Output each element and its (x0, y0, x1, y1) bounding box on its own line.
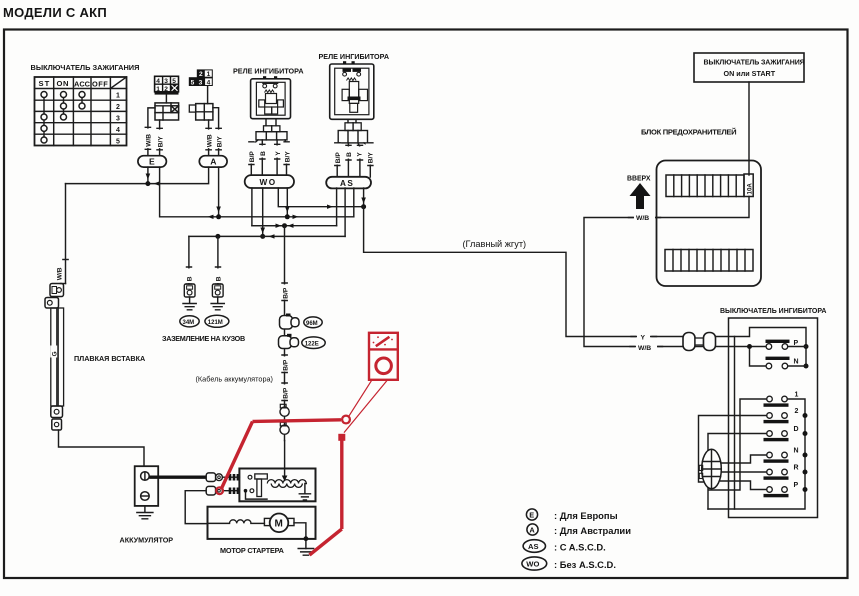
svg-text:B/Y: B/Y (368, 152, 375, 164)
starter motor box (208, 507, 316, 539)
ignition connector A (189, 104, 213, 120)
inline connector circle 1 on B/P (280, 404, 289, 416)
solenoid pull-in coil (267, 480, 306, 484)
red highlight vertical (340, 441, 343, 530)
contact row R (764, 465, 799, 480)
wire WO pin B (262, 188, 264, 236)
svg-text:P: P (794, 482, 799, 489)
wire B/P relay2 to AS (337, 143, 340, 177)
connector fusible link bottom b (52, 419, 62, 430)
red pointer line A (349, 380, 372, 417)
arrow right on Y link (327, 205, 333, 209)
connector ground 1 (184, 284, 195, 297)
connector oval E (Europe) (138, 156, 167, 167)
connector battery cable 2 (206, 486, 222, 495)
wire row2 to connector (699, 416, 767, 483)
wire ignition to 10A fuse (748, 82, 750, 175)
solenoid plunger (255, 474, 267, 497)
svg-text:БЛОК ПРЕДОХРАНИТЕЛЕЙ: БЛОК ПРЕДОХРАНИТЕЛЕЙ (641, 128, 736, 137)
arrow right on B/Y bus (293, 215, 299, 219)
svg-text:4: 4 (116, 127, 120, 134)
svg-text:РЕЛЕ ИНГИБИТОРА: РЕЛЕ ИНГИБИТОРА (319, 52, 390, 61)
wire Y relay1 to WO (276, 140, 278, 176)
connector fusible link top a (50, 284, 66, 297)
red highlight battery cable diagonal (221, 422, 253, 490)
connector fusible link bottom a (51, 406, 63, 418)
solenoid contact 2 (250, 489, 254, 493)
wire AS pin B/Y joins bus (353, 188, 355, 217)
wire B/Y relay2 to AS (364, 143, 370, 177)
connector pair 96M (280, 314, 300, 330)
svg-text:B/P: B/P (283, 287, 290, 299)
svg-text:P: P (794, 340, 799, 347)
arrow left on W/B bus (154, 181, 160, 185)
svg-text:E: E (529, 511, 534, 520)
svg-text:N: N (794, 448, 799, 455)
contact N (766, 357, 807, 369)
wire W/B from connector A to oval A (208, 120, 210, 156)
svg-text:WO: WO (526, 560, 539, 569)
connector oval AS (with ASCD) (326, 177, 371, 189)
wire ticks relay1 labels (249, 142, 289, 165)
arrow down WO pin B (260, 228, 265, 234)
red highlight diagonal to ground (310, 529, 342, 555)
battery (135, 466, 159, 506)
svg-text:2: 2 (164, 86, 168, 93)
arrow left ground bus (269, 234, 275, 238)
svg-text:B/P: B/P (249, 151, 256, 163)
ground symbol 1 (183, 297, 196, 310)
wire thick battery positive to starter (149, 476, 206, 479)
junction dot P right (804, 344, 809, 349)
red highlight horizontal (253, 420, 342, 422)
fuse block (657, 161, 762, 287)
svg-text:W/B: W/B (636, 215, 649, 222)
svg-text:W/B: W/B (206, 134, 213, 147)
svg-text:ВЫКЛЮЧАТЕЛЬ ИНГИБИТОРА: ВЫКЛЮЧАТЕЛЬ ИНГИБИТОРА (720, 308, 826, 315)
svg-text:3: 3 (116, 116, 120, 123)
svg-text:(Главный жгут): (Главный жгут) (463, 239, 527, 249)
inline connector circle 2 on B/P (280, 422, 289, 434)
red open circle marker (342, 416, 350, 424)
connector number oval 96M (304, 317, 322, 328)
fusible link G (50, 308, 63, 406)
svg-text:ЗАЗЕМЛЕНИЕ НА КУЗОВ: ЗАЗЕМЛЕНИЕ НА КУЗОВ (162, 334, 245, 343)
wire B relay1 to WO (261, 140, 263, 176)
inline connector capsule pair (683, 333, 716, 351)
motor field coil (208, 520, 265, 524)
wire bus W/B (ignition feed) (66, 167, 209, 184)
svg-text:B: B (346, 152, 353, 157)
legend symbol AS (523, 540, 545, 553)
connector oval A (Australia) (199, 156, 227, 167)
red callout box (369, 333, 398, 380)
wire WO pin B/P (252, 188, 285, 226)
legend symbol E (526, 509, 537, 520)
svg-text:AS: AS (340, 179, 354, 188)
wire B/Y from oval E down to B/Y bus (160, 167, 354, 217)
wire B/P link bus (252, 225, 337, 227)
legend symbol WO (522, 557, 547, 570)
svg-text:: Для Австралии: : Для Австралии (554, 525, 631, 536)
svg-text:D: D (794, 426, 799, 433)
wire ground bus B (189, 235, 345, 237)
arrow left B/P link (288, 224, 294, 228)
contact row P2 (764, 482, 799, 497)
svg-text:96M: 96M (306, 321, 318, 327)
svg-text:W/B: W/B (145, 134, 152, 147)
ground symbol starter (298, 549, 313, 556)
svg-text:B/P: B/P (283, 387, 290, 399)
svg-text:АККУМУЛЯТОР: АККУМУЛЯТОР (120, 536, 174, 545)
inhibitor switch box (729, 318, 818, 518)
svg-text:5: 5 (172, 78, 176, 85)
starter motor M (264, 514, 294, 533)
contact row N2 (764, 448, 799, 463)
wire solenoid S terminal (185, 491, 207, 524)
wire W/B branch to P and N (750, 347, 767, 367)
svg-text:M: M (275, 519, 283, 530)
svg-text:1: 1 (795, 392, 799, 399)
wire AS pin B/P (336, 188, 338, 226)
connector pair 122E (279, 334, 299, 349)
svg-text:1: 1 (156, 86, 160, 93)
wire B/Y from connector E to oval E (159, 120, 161, 156)
wire ticks relay2 labels (335, 143, 373, 166)
svg-text:РЕЛЕ ИНГИБИТОРА: РЕЛЕ ИНГИБИТОРА (233, 67, 304, 76)
svg-text:A: A (210, 157, 216, 167)
wire right bus of switch (708, 399, 805, 509)
contact row D (764, 426, 799, 441)
connector number oval 122E (302, 337, 325, 349)
svg-text:AS: AS (528, 542, 539, 551)
svg-text:(Кабель аккумулятора): (Кабель аккумулятора) (196, 375, 274, 384)
svg-text:Y: Y (641, 335, 646, 342)
svg-text:R: R (794, 465, 799, 472)
ground symbol 2 (211, 297, 224, 310)
svg-text:ВВЕРХ: ВВЕРХ (627, 176, 651, 183)
svg-text:B/Y: B/Y (284, 151, 291, 163)
svg-text:ST: ST (39, 79, 51, 88)
red pointer line B (344, 380, 388, 433)
arrow left on B/Y bus (208, 215, 214, 219)
ignition connector E (with X cell) (155, 103, 179, 120)
svg-text:B/Y: B/Y (158, 136, 165, 148)
wire link to battery (59, 430, 145, 466)
wire grid1 to connector E (165, 95, 167, 103)
svg-text:122E: 122E (305, 341, 319, 347)
svg-text:Y: Y (275, 151, 282, 156)
wire W/B from fuse block (584, 197, 766, 347)
connector fusible link top b (45, 298, 59, 309)
svg-text:2: 2 (116, 104, 120, 111)
svg-text:МОТОР СТАРТЕРА: МОТОР СТАРТЕРА (220, 546, 285, 555)
wire and teeth into solenoid 2 (222, 488, 239, 495)
wire rowP to connector (721, 481, 767, 490)
arrow right B/P link (276, 224, 282, 228)
wire W/B from connector E to oval E (148, 108, 155, 156)
svg-text:B/P: B/P (283, 359, 290, 371)
wire WO pin B/Y (286, 188, 288, 217)
wire W/B left column from bus (65, 184, 67, 284)
wire Y inside switch (716, 328, 806, 367)
svg-text:1: 1 (207, 71, 211, 78)
junction dot ground2 (215, 234, 220, 239)
svg-text:10A: 10A (746, 183, 753, 195)
wire B/P column (284, 226, 286, 441)
label Y harness wire (637, 332, 650, 341)
arrow down on E stem (146, 174, 151, 180)
svg-text:B/P: B/P (335, 152, 342, 164)
svg-text:W/B: W/B (638, 345, 651, 352)
wire body-ground 1 drop (188, 236, 190, 284)
svg-text:: C A.S.C.D.: : C A.S.C.D. (554, 542, 606, 553)
contact P (766, 340, 807, 350)
wire B relay2 to AS (347, 143, 349, 177)
junction dot WO B/Y (285, 214, 290, 219)
wire B/Y from connector A to oval A (213, 108, 219, 156)
wires relay2 to connector grid (348, 119, 356, 123)
junction dot N right (804, 364, 809, 369)
svg-text:ВЫКЛЮЧАТЕЛЬ ЗАЖИГАНИЯ: ВЫКЛЮЧАТЕЛЬ ЗАЖИГАНИЯ (31, 63, 140, 72)
svg-text:ACC: ACC (74, 80, 91, 89)
relay 2 connector grid (338, 123, 367, 143)
junction dots right bus (803, 413, 808, 418)
ignition switch ON/START box (694, 53, 805, 82)
up arrow (630, 183, 651, 209)
svg-text:2: 2 (199, 71, 203, 78)
svg-text:ON: ON (57, 79, 70, 88)
connector ground 2 (212, 284, 223, 297)
label W/B harness wire (636, 343, 657, 352)
switch body connector oval (699, 449, 721, 489)
junction dot B/P column top (282, 223, 287, 228)
inhibitor relay 1 (WO) (251, 76, 291, 119)
wire rowN to connector (721, 455, 767, 463)
solenoid contact 1 (248, 475, 252, 479)
wire grid2 to connector A (207, 86, 209, 104)
wire rowD to connector (708, 434, 767, 510)
svg-text:ВЫКЛЮЧАТЕЛЬ ЗАЖИГАНИЯ: ВЫКЛЮЧАТЕЛЬ ЗАЖИГАНИЯ (704, 60, 805, 67)
junction dot W/B branch (747, 344, 752, 349)
svg-text:МОДЕЛИ С АКП: МОДЕЛИ С АКП (3, 5, 107, 20)
svg-text:1: 1 (116, 93, 120, 100)
wire AS pin B (344, 188, 346, 236)
junction dot E stem (145, 181, 150, 186)
ignition switch position table (35, 77, 127, 146)
junction dot A B/Y (216, 214, 221, 219)
red ring at battery connector (216, 487, 223, 494)
connector pin grid 2-1/5-3-4 (189, 69, 213, 86)
starter solenoid box (239, 469, 315, 502)
svg-text:121M: 121M (208, 320, 223, 326)
wire B/P into coil (284, 441, 286, 478)
svg-text:3: 3 (199, 80, 203, 87)
svg-text:ON или START: ON или START (724, 69, 776, 78)
svg-text:ПЛАВКАЯ ВСТАВКА: ПЛАВКАЯ ВСТАВКА (74, 354, 145, 363)
svg-text:3: 3 (164, 78, 168, 85)
svg-text:5: 5 (191, 80, 195, 87)
connector number oval 121M (205, 315, 229, 327)
contact row 2 (764, 408, 799, 423)
connector pin grid 4-3-5/1-2-X (155, 76, 179, 94)
junction dot Y node (361, 204, 366, 209)
connector oval WO (without ASCD) (245, 175, 294, 188)
legend symbol A (527, 524, 538, 535)
svg-text:A: A (529, 526, 535, 535)
wire B/P relay1 to WO (251, 140, 258, 176)
svg-text:N: N (794, 359, 799, 366)
solenoid coil ground (299, 484, 310, 501)
svg-text:2: 2 (795, 408, 799, 415)
inner bus vertical (734, 337, 736, 510)
svg-text:Y: Y (357, 152, 364, 157)
svg-text:B/Y: B/Y (216, 136, 223, 148)
wire body-ground 2 drop (217, 236, 219, 284)
arrow down WO B/Y (285, 207, 290, 213)
relay 1 connector grid (256, 126, 287, 140)
svg-text:5: 5 (116, 138, 120, 145)
wire motor to ground (294, 523, 306, 549)
battery ground (137, 506, 153, 519)
svg-text:WO: WO (260, 178, 277, 187)
contact row 1 (764, 392, 799, 407)
svg-text:G: G (52, 351, 59, 356)
svg-text:4: 4 (156, 78, 160, 85)
inhibitor relay 2 (AS) (330, 61, 374, 119)
arrow down AS Y (361, 198, 366, 204)
wire B/Y relay1 to WO (285, 140, 287, 176)
red square marker (338, 434, 345, 441)
wire W/B stem below oval E (147, 167, 149, 184)
svg-text:34M: 34M (183, 320, 195, 326)
wire main harness Y to inhibitor (364, 207, 683, 337)
junction dot WO B at ground bus (260, 234, 265, 239)
wire B/Y stem below oval A (218, 167, 220, 217)
svg-text:: Для Европы: : Для Европы (554, 510, 618, 521)
solenoid contact link (246, 491, 268, 499)
svg-text:B: B (186, 276, 193, 281)
junction dot motor ground (304, 536, 309, 541)
connector battery cable 1 (206, 473, 222, 482)
svg-text:B: B (260, 151, 267, 156)
svg-text:E: E (149, 157, 155, 167)
wire row1 to connector (709, 399, 767, 490)
wire and teeth into solenoid 1 (222, 474, 239, 481)
wire rowR to connector (721, 471, 767, 473)
svg-text:: Без A.S.C.D.: : Без A.S.C.D. (554, 559, 616, 570)
connector number oval 34M (180, 316, 199, 327)
svg-text:B: B (215, 276, 222, 281)
wire WO pin Y (278, 188, 363, 207)
wires relay1 to connector grid (266, 119, 276, 126)
wire AS pin Y (363, 188, 365, 207)
arrow down on A stem (216, 207, 221, 213)
svg-text:W/B: W/B (57, 267, 64, 280)
svg-text:OFF: OFF (92, 80, 108, 89)
wire Y relay2 to AS (358, 143, 360, 177)
